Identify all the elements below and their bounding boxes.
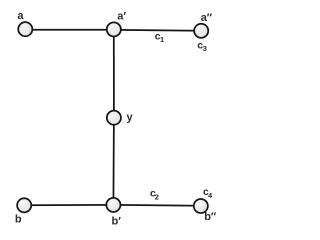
svg-text:3: 3 <box>203 44 207 53</box>
svg-text:b: b <box>15 214 22 226</box>
node b' <box>106 198 120 212</box>
svg-text:b″: b″ <box>204 211 217 223</box>
wire b' to b'' (edge c2) <box>113 204 200 207</box>
svg-text:y: y <box>127 111 134 123</box>
svg-text:a′: a′ <box>117 10 126 22</box>
node a' <box>107 22 121 36</box>
node b <box>17 198 31 212</box>
svg-text:a″: a″ <box>201 12 213 24</box>
node y <box>107 111 121 125</box>
svg-text:2: 2 <box>155 193 159 202</box>
wire b to b' <box>24 204 113 206</box>
wire a' to a'' (edge c1) <box>114 30 201 31</box>
wire y to b' <box>112 118 115 205</box>
svg-text:1: 1 <box>160 35 164 44</box>
svg-text:b′: b′ <box>112 216 122 228</box>
svg-text:a: a <box>17 10 24 22</box>
wire a to a' <box>25 29 114 31</box>
node b'' <box>194 199 208 213</box>
node a <box>18 22 32 36</box>
wire a' to y <box>113 30 115 118</box>
node a'' <box>194 24 208 38</box>
svg-text:4: 4 <box>208 191 213 200</box>
